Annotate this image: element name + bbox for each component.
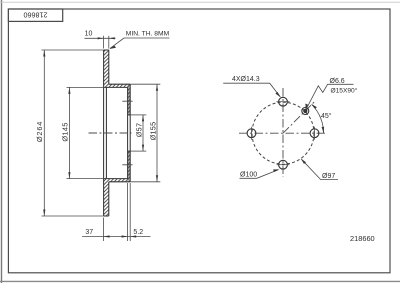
outline: disc right face bottom: [108, 182, 110, 216]
dim 155 ext line bottom: [131, 181, 161, 183]
page edge left: [1, 0, 3, 283]
arrow 37 right: [122, 235, 128, 237]
arrow 155 bottom: [156, 175, 158, 182]
dim 145 ext line top: [67, 86, 104, 88]
page edge top: [0, 1, 400, 3]
centerline horizontal: [239, 132, 326, 134]
45 deg dimension arc: [312, 105, 324, 134]
dim 10 ext line right: [108, 36, 110, 49]
outline: disc top edge: [104, 49, 109, 51]
tick top hole: [277, 101, 290, 103]
svg-text:Ø15X90°: Ø15X90°: [331, 87, 358, 95]
section centerline: [89, 132, 132, 134]
dim 10 ext line left: [103, 36, 105, 49]
outline: hat top edge: [109, 83, 130, 85]
arrow 155 top: [156, 84, 158, 91]
dim 145 ext line bottom: [67, 178, 104, 180]
svg-text:Ø145: Ø145: [60, 122, 69, 141]
countersunk hole inner: [304, 109, 307, 112]
dim 155 ext line top: [131, 83, 161, 85]
arrow 45 arc top: [311, 104, 317, 109]
outline: disc bottom edge: [104, 215, 109, 217]
dim 57 ext line bottom: [131, 150, 147, 152]
outline: bore top edge: [128, 114, 131, 116]
svg-text:MIN. TH. 8MM: MIN. TH. 8MM: [126, 31, 170, 38]
outline: disc right face top: [108, 50, 110, 84]
arrow 145 top: [68, 87, 70, 94]
outline: disc left face: [103, 50, 105, 216]
callout 100 leader: [240, 170, 279, 179]
bolt hole top: [279, 97, 288, 106]
tick bottom hole: [277, 164, 290, 166]
svg-text:45°: 45°: [321, 112, 332, 120]
arrow 10 right: [109, 37, 115, 39]
svg-text:Ø155: Ø155: [148, 122, 157, 141]
bolt hole left: [247, 129, 256, 138]
callout 6.6 leader: [306, 84, 353, 109]
outline: hat inner edge bottom: [104, 178, 128, 180]
arrow 264 bottom: [43, 210, 45, 217]
dim 145 line: [68, 87, 70, 178]
dim 264 ext line bottom: [42, 215, 104, 217]
outline: hat inner edge top: [104, 86, 128, 88]
arrow 264 top: [43, 50, 45, 57]
centerline vertical: [282, 88, 284, 177]
dim 10 line: [85, 37, 116, 39]
svg-text:10: 10: [85, 30, 93, 37]
bolt circle dashed: [252, 102, 314, 164]
svg-text:4XØ14.3: 4XØ14.3: [232, 76, 260, 83]
tick left hole: [251, 127, 253, 140]
callout 97 arrow: [301, 158, 306, 164]
dim 5.2 ext line right: [129, 183, 131, 241]
dim 37 line: [82, 236, 151, 238]
outline: hat bottom edge: [109, 181, 130, 183]
flange gray underlay bottom: [128, 151, 131, 182]
flange gray underlay top: [128, 84, 131, 115]
page edge bottom: [0, 280, 400, 282]
svg-text:218660: 218660: [350, 234, 375, 243]
bolt hole bottom: [279, 160, 288, 169]
callout 97 leader: [302, 159, 339, 179]
svg-text:Ø264: Ø264: [35, 121, 44, 142]
arrow 57 top: [142, 115, 144, 122]
tick right hole: [314, 127, 316, 140]
arrow 145 bottom: [68, 172, 70, 179]
dim 264 ext line top: [42, 49, 104, 51]
svg-text:5.2: 5.2: [133, 229, 143, 236]
dim 155 line: [156, 84, 158, 182]
callout 4x14.3 arrow: [275, 92, 280, 98]
countersunk hole outer: [302, 108, 309, 115]
callout 100 arrow: [273, 169, 279, 172]
arrow 37 left: [104, 235, 110, 237]
svg-text:Ø57: Ø57: [135, 123, 144, 138]
outline: bore bottom edge: [128, 150, 131, 152]
dim 37 ext line left: [103, 218, 105, 242]
svg-text:37: 37: [85, 229, 93, 236]
centerline 45 deg: [283, 101, 315, 133]
min th leader diagonal: [110, 38, 124, 48]
outline: hat inner silhouette: [105, 87, 107, 178]
svg-text:218660: 218660: [24, 11, 48, 20]
callout 4x14.3 leader: [223, 83, 280, 97]
callout 6.6 arrow: [305, 104, 308, 111]
dim 57 line: [142, 115, 144, 151]
dim 5.2 ext line left: [127, 183, 129, 241]
svg-text:Ø97: Ø97: [322, 173, 335, 180]
arrow 45 arc bottom: [322, 127, 325, 134]
arrow min th leader: [109, 46, 116, 49]
bolt hole right: [310, 129, 319, 138]
bolt circle tick top flange: [122, 100, 132, 102]
title box: [8, 9, 62, 21]
arrow 57 bottom: [142, 145, 144, 152]
min th leader underline: [124, 37, 170, 39]
disc ring hatched area bottom: [104, 151, 131, 216]
svg-text:Ø100: Ø100: [240, 172, 257, 179]
arrow 5.2: [130, 235, 136, 237]
dim 264 line: [43, 50, 45, 216]
outline: flange right face: [129, 84, 131, 182]
outline: flange left face: [127, 87, 129, 178]
dim 57 ext line top: [131, 114, 147, 116]
bolt circle tick bottom flange: [122, 164, 132, 166]
svg-text:Ø6.6: Ø6.6: [330, 78, 345, 85]
disc ring hatched area top: [104, 50, 131, 115]
arrow 10 left: [98, 37, 104, 39]
